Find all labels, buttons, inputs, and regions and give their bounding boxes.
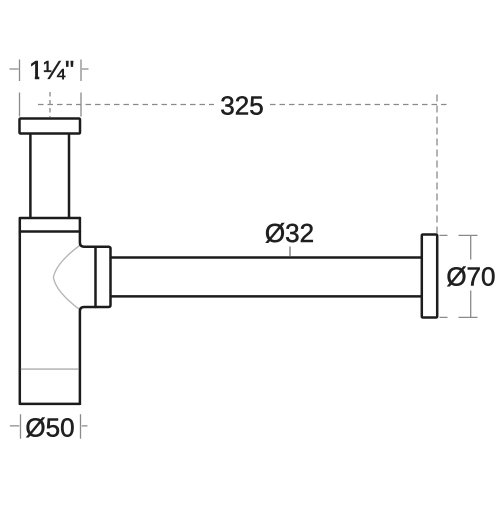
svg-text:1¼": 1¼" bbox=[29, 55, 74, 85]
svg-text:Ø70: Ø70 bbox=[446, 262, 495, 292]
svg-text:Ø50: Ø50 bbox=[25, 412, 74, 442]
svg-text:Ø32: Ø32 bbox=[265, 218, 314, 248]
svg-text:325: 325 bbox=[220, 91, 263, 121]
